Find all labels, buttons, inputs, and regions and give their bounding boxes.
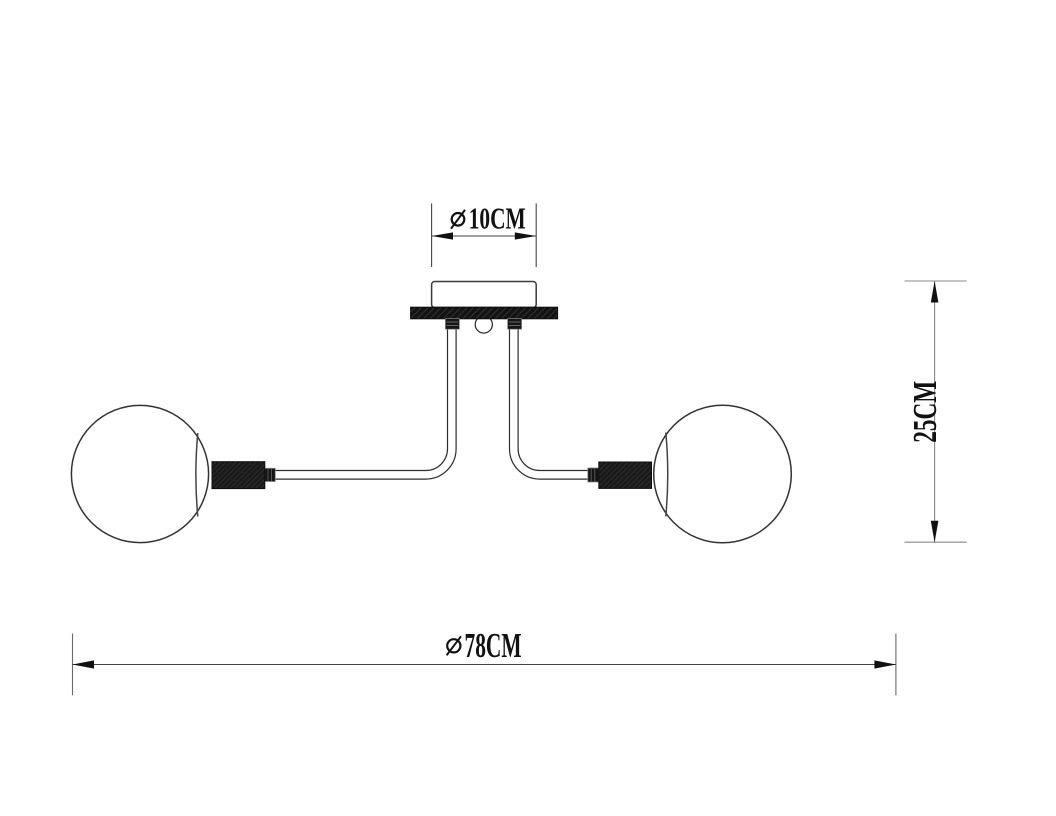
svg-text:10CM: 10CM <box>469 200 526 235</box>
svg-text:25CM: 25CM <box>907 381 944 443</box>
svg-text:78CM: 78CM <box>465 627 522 665</box>
